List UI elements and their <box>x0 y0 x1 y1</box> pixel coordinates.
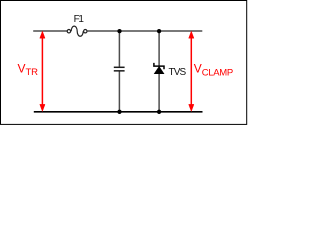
capacitor <box>114 67 125 71</box>
wire capacitor branch lower <box>118 71 120 111</box>
junction node bottom-capacitor <box>117 110 121 114</box>
junction node top-capacitor <box>117 29 121 33</box>
fuse F1 <box>67 26 87 36</box>
junction node bottom-TVS <box>157 110 161 114</box>
VTR dimension arrow <box>40 31 45 111</box>
wire TVS branch upper <box>158 31 160 66</box>
TVS diode <box>154 63 164 74</box>
wire top-right segment <box>87 30 202 32</box>
wire capacitor branch upper <box>118 31 120 67</box>
svg-text:TVS: TVS <box>169 67 187 78</box>
wire top-left segment <box>33 30 67 32</box>
VCLAMP dimension arrow <box>189 31 194 111</box>
wire bottom segment <box>34 111 203 113</box>
wire TVS branch lower <box>158 74 160 112</box>
junction node top-TVS <box>157 29 161 33</box>
